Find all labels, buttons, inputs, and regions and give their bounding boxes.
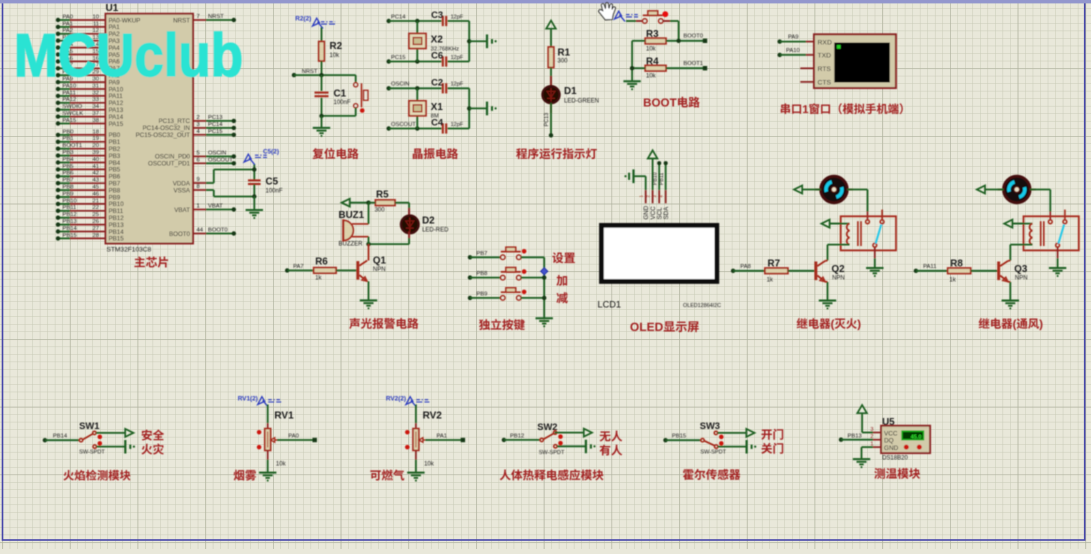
pin PB5 (41) [56,164,121,174]
transistor Q2 NPN [814,261,845,300]
pin PB9 (46) [56,191,121,201]
power arrow fan 继电器(通风) [977,186,1004,194]
sideways ground crystal [469,34,497,48]
svg-text:27: 27 [93,226,99,232]
switch SW2 SW-SPDT PIR sensor [502,421,565,456]
mouse hand cursor [599,3,616,20]
svg-text:PA11: PA11 [63,90,76,96]
cursor label C5(2) [244,149,279,165]
pin RTS stub [800,67,814,69]
relay coil 继电器(灭火) [829,221,861,246]
wiper wire net PA1 [425,434,465,443]
svg-text:PC14: PC14 [391,14,406,20]
resistor R5 300 [369,189,410,213]
resistor R3 10k [645,29,666,52]
net PC14 wire top [387,14,442,23]
caption 测温模块 [874,468,920,479]
svg-text:OSCIN: OSCIN [208,150,226,156]
svg-text:PB7: PB7 [63,178,74,184]
svg-text:1k: 1k [949,277,956,283]
pin PA6 (16) [56,56,120,66]
net OSCIN wire top [387,82,442,91]
pin PA10 (31) [56,83,124,93]
net label PC13 rotated / wire [544,103,553,138]
wire SW1 to power arrow 安全 [96,429,133,437]
relay contacts 继电器(灭火) [866,210,884,248]
svg-text:PA11: PA11 [923,264,936,270]
pin PA7 (17) [56,63,120,73]
transistor Q1 NPN [356,244,386,300]
svg-text:PB3: PB3 [63,150,74,156]
BOOT push button [626,11,679,41]
pin BOOT0 (44) net BOOT0 [169,228,236,238]
svg-text:8: 8 [197,184,200,190]
svg-text:PA0: PA0 [288,434,299,440]
U5 green display 45.0 [902,431,923,440]
svg-text:C3: C3 [431,9,443,20]
relay coil 继电器(通风) [1012,221,1044,246]
svg-text:5: 5 [197,150,200,156]
svg-text:PB9: PB9 [63,191,74,197]
pin PB15 (28) [56,233,124,243]
wire C1 bottom to button bottom [319,114,355,118]
svg-text:PB15: PB15 [109,236,125,243]
svg-text:DS18B20: DS18B20 [882,456,908,462]
caption 串口1窗口（模拟手机端） [781,103,903,114]
svg-text:10k: 10k [424,461,435,467]
caption 开门/关门 [761,429,783,454]
wire VCC rail to buzzer and transistor [368,203,370,244]
crystal X1 8M [409,88,443,128]
svg-text:20: 20 [93,143,99,149]
svg-text:PB8: PB8 [63,185,74,191]
pin PB11 (22) [56,205,124,215]
caption 安全/火灾 [141,430,164,455]
svg-text:LED-RED: LED-RED [422,227,449,233]
caption 程序运行指示灯 [516,148,597,159]
wire PA10 to TXD [778,48,815,57]
wire PB13 to DQ [839,434,873,442]
svg-text:40: 40 [93,157,99,163]
svg-text:SW1: SW1 [79,420,99,431]
led D1 LED-GREEN [543,76,600,113]
oled sideways ground [624,169,645,190]
power arrow U5 [857,405,873,433]
svg-text:34: 34 [93,104,100,110]
caption 主芯片 [134,256,168,267]
caption BOOT电路 [644,97,700,108]
cursor pencil near BOOT button [615,11,639,21]
svg-text:PC14: PC14 [208,122,223,128]
svg-text:PB13: PB13 [63,219,77,225]
svg-text:VBAT: VBAT [174,207,190,214]
relay 继电器(通风) box [1024,216,1079,250]
svg-text:LCD1: LCD1 [598,299,622,309]
wire VDDA to C5 [206,170,254,184]
svg-text:R6: R6 [315,257,328,268]
wire fan to relay 继电器(灭火) [847,190,867,221]
svg-text:NPN: NPN [1015,276,1028,282]
pin VSSA (8) [173,184,206,194]
push button PB7 [468,247,544,259]
caption 可燃气 [370,470,404,481]
svg-text:R7: R7 [768,259,781,270]
capacitor C2 12pF [431,76,469,93]
wire GND pin to ground [853,447,873,468]
mcu U1 body [106,14,194,244]
led D2 LED-RED [401,203,449,234]
probe dots RV1 [257,430,262,449]
potentiometer RV1 10k [265,405,294,468]
svg-text:39: 39 [93,150,99,156]
wire R3 to BOOT0 terminal [666,34,707,43]
svg-text:NRST: NRST [208,14,224,20]
ground Q2 emitter [819,301,836,310]
terminal black screen [834,43,890,83]
svg-text:Q1: Q1 [373,256,387,267]
svg-text:PC13: PC13 [208,115,223,121]
virtual terminal box [814,34,896,88]
svg-text:R4: R4 [646,56,659,67]
wire SW1 to flag 火灾 [97,440,135,454]
power arrow alarm [342,199,371,207]
svg-text:R2: R2 [330,41,343,52]
pin PC13_RTC (2) net PC13 [158,115,236,125]
power arrow coil 继电器(通风) [1004,220,1023,228]
temp module U5 box [881,417,930,453]
svg-text:BUZZER: BUZZER [339,241,364,247]
svg-text:NRST: NRST [302,69,318,75]
fan/motor of 继电器(通风) [998,176,1036,203]
ground buttons [536,318,553,327]
svg-text:RV2: RV2 [423,411,443,422]
buttons right rail [542,257,546,317]
svg-text:PB9: PB9 [476,292,487,298]
ground below C5 [246,210,263,219]
relay 继电器(灭火) box [841,216,896,250]
wire PA9 to RXD [778,35,815,44]
svg-text:BOOT0: BOOT0 [208,228,228,234]
svg-text:PC15: PC15 [391,55,406,61]
svg-text:MCUclub: MCUclub [14,22,243,89]
pin CTS stub [800,81,814,83]
wiper wire net PA0 [277,434,317,443]
svg-text:28: 28 [93,233,99,239]
svg-text:BOOT0: BOOT0 [683,34,703,40]
caption 继电器(灭火) [797,318,861,330]
svg-text:3: 3 [870,427,873,433]
svg-text:OSCIN: OSCIN [391,82,409,88]
oled SCL wire net PB10 [652,161,661,190]
svg-text:C5: C5 [266,177,279,188]
net PC15 wire bottom [387,55,442,64]
svg-text:NPN: NPN [832,276,845,282]
svg-text:C6: C6 [431,50,443,61]
wire fan to relay 继电器(通风) [1030,190,1050,221]
svg-text:PB12: PB12 [510,433,524,439]
pin PA11 (32) [56,90,123,100]
svg-text:C4: C4 [431,117,444,128]
pin PB13 (26) [56,219,124,229]
pin PA4 (14) [56,42,120,52]
svg-text:45: 45 [93,185,99,191]
svg-text:46: 46 [93,191,99,197]
svg-text:NPN: NPN [373,267,386,273]
pin PB0 (18) [56,129,121,139]
svg-text:DQ: DQ [884,438,894,445]
wire R4 to BOOT1 terminal [666,61,707,70]
svg-text:10: 10 [93,14,99,20]
svg-text:PA12: PA12 [63,97,77,103]
sideways ground crystal [469,102,497,116]
svg-text:RV1(2): RV1(2) [238,395,258,402]
pin PA0 (10) [56,14,141,24]
U5 red indicator dots [904,445,922,450]
svg-text:21: 21 [93,198,99,204]
svg-text:CTS: CTS [818,80,832,87]
pin PA9 (30) [56,77,120,87]
pin PA2 (12) [56,28,120,38]
svg-text:PA10: PA10 [786,48,800,54]
svg-text:PA15: PA15 [109,121,124,128]
net OSCOUT wire bottom [387,122,442,131]
svg-text:D1: D1 [564,86,577,97]
capacitor C3 12pF [431,9,469,26]
left rail R3/R4 and ground [623,41,645,90]
svg-text:37: 37 [93,111,99,117]
svg-text:PA7: PA7 [293,264,304,270]
pin PB12 (25) [56,212,124,222]
svg-text:10k: 10k [276,461,287,467]
capacitor C6 12pF [431,50,469,67]
svg-text:100nF: 100nF [266,189,283,195]
wire SW2 to power arrow 无人 [555,429,592,437]
svg-text:PA9: PA9 [788,35,799,41]
fan/motor of 继电器(灭火) [815,176,853,203]
capacitor C4 12pF [431,117,469,134]
svg-text:U5: U5 [882,417,895,428]
svg-text:PB11: PB11 [63,205,77,211]
svg-text:PB14: PB14 [63,226,78,232]
relay contacts 继电器(通风) [1048,210,1066,248]
pin PB7 (43) [56,178,121,188]
crystal right rail wire [467,88,471,128]
svg-text:PB15: PB15 [672,434,686,440]
pot bottom ground RV2 [407,450,424,481]
svg-text:300: 300 [375,208,386,214]
caption 人体热释电感应模块 [500,469,604,480]
svg-text:RTS: RTS [818,66,832,73]
capacitor C1 100nF [315,75,351,116]
resistor R6 1k [285,257,356,282]
ground Q3 emitter [1002,301,1019,310]
relay common to ground 继电器(通风) [1049,247,1066,277]
caption OLED显示屏 [630,321,698,332]
wire SW3 to power arrow 开门 [717,429,754,437]
svg-text:OLED12864I2C: OLED12864I2C [683,303,721,309]
svg-text:RXD: RXD [818,39,832,46]
svg-text:PB4: PB4 [63,157,75,163]
cursor label RV1(2) [238,395,282,407]
svg-text:SW-SPDT: SW-SPDT [700,449,726,455]
svg-text:33: 33 [93,97,99,103]
svg-text:22: 22 [93,205,99,211]
svg-text:PB7: PB7 [476,251,487,257]
svg-text:SWCLK: SWCLK [63,111,84,117]
mcu U1 value STM32F103C8 [107,247,152,254]
wire SW3 to flag 关门 [718,440,757,454]
reset push button [354,75,368,116]
svg-text:BOOT1: BOOT1 [63,143,83,149]
pin PB14 (27) [56,226,124,236]
oled power arrow VCC [648,150,658,190]
svg-text:PB8: PB8 [476,271,487,277]
svg-text:12pF: 12pF [451,55,464,61]
wire coil to Q3 collector [1010,245,1032,261]
svg-text:7: 7 [197,14,200,20]
buzzer BUZ1 [339,210,369,247]
caption 烟雾 [234,470,257,481]
capacitor C5 [248,164,283,209]
svg-text:SWDIO: SWDIO [63,104,83,110]
svg-text:D2: D2 [422,215,435,226]
svg-text:VDDA: VDDA [173,180,191,187]
caption 复位电路 [313,148,359,159]
svg-text:43: 43 [93,178,99,184]
pin PA8 (29) [56,70,120,80]
cursor label RV2(2) [386,395,430,407]
pin PB3 (39) [56,150,121,160]
top window band [0,0,1091,3]
resistor R4 10k [645,56,666,79]
svg-text:9: 9 [197,177,200,183]
pin SWDIO (34) [56,104,124,114]
svg-text:PB10: PB10 [652,172,658,185]
wire VSSA to C5 [206,190,254,197]
svg-text:PB1: PB1 [63,136,74,142]
svg-text:R3: R3 [646,29,659,40]
caption 晶振电路 [413,148,458,159]
probe dots RV2 [405,430,410,449]
oled display LCD1 OLED12864I2C [598,223,722,309]
pin PB8 (45) [56,185,121,195]
svg-text:41: 41 [93,164,99,170]
power arrow coil 继电器(灭火) [821,220,840,228]
caption 继电器(通风) [979,318,1043,330]
svg-text:BOOT0: BOOT0 [169,231,191,238]
svg-text:SW-SPDT: SW-SPDT [79,449,105,455]
svg-text:R1: R1 [558,48,571,59]
svg-text:R2(2): R2(2) [295,16,311,23]
caption 设置 [552,252,575,263]
potentiometer RV2 10k [413,405,442,468]
svg-text:BOOT1: BOOT1 [683,61,703,67]
svg-text:6: 6 [197,157,200,163]
svg-text:PC15-OSC32_OUT: PC15-OSC32_OUT [136,132,191,139]
caption 声光报警电路 [349,318,418,329]
svg-text:Q2: Q2 [832,264,846,275]
svg-text:PA8: PA8 [740,264,751,270]
svg-text:OSCOUT: OSCOUT [208,157,233,163]
svg-text:RV2(2): RV2(2) [386,395,406,402]
svg-text:PB5: PB5 [63,164,74,170]
relay common to ground 继电器(灭火) [866,247,883,277]
pin PB10 (21) [56,198,124,208]
svg-text:38: 38 [93,118,99,124]
svg-text:42: 42 [93,171,99,177]
svg-text:18: 18 [93,129,99,135]
svg-text:U1: U1 [106,3,119,14]
pin BOOT1 (20) [56,143,121,153]
pin PA12 (33) [56,97,124,107]
svg-text:PB6: PB6 [63,171,74,177]
caption 减 [556,292,567,303]
push button PB8 [468,268,544,280]
wire D2 to junction [366,232,409,247]
cursor label R2(2) [295,16,335,29]
caption 独立按键 [479,319,525,330]
resistor R7 1k net PA8 [731,259,815,284]
U5 value DS18B20 [882,456,908,462]
svg-text:12pF: 12pF [451,82,464,88]
svg-text:OSCOUT: OSCOUT [391,122,416,128]
svg-text:PB11: PB11 [659,173,665,185]
mcu U1 refdes [106,3,119,14]
push button PB9 [468,288,544,300]
svg-text:R5: R5 [376,189,389,200]
ground reset circuit [313,116,330,137]
svg-text:25: 25 [93,212,99,218]
oled pins 1-4 [639,190,670,219]
pin PC14-OSC32_IN (3) net PC14 [143,122,236,132]
pin PB6 (42) [56,171,121,181]
caption 无人/有人 [600,431,623,456]
net label NRST / wire [292,69,356,78]
svg-text:45.0: 45.0 [911,434,922,440]
svg-text:26: 26 [93,219,99,225]
svg-text:12pF: 12pF [451,14,464,20]
svg-text:Q3: Q3 [1014,264,1028,275]
wire SW2 to flag 有人 [557,440,596,454]
svg-text:100nF: 100nF [334,100,351,106]
svg-text:R8: R8 [950,259,963,270]
svg-text:3: 3 [197,122,200,128]
svg-text:PB15: PB15 [63,233,77,239]
pin SWCLK (37) [56,111,124,121]
svg-text:OSCOUT_PD1: OSCOUT_PD1 [148,161,191,168]
pin OSCIN_PD0 (5) net OSCIN [155,150,236,160]
svg-text:32: 32 [93,90,99,96]
svg-text:VCC: VCC [884,431,898,438]
svg-text:2: 2 [197,115,200,121]
U5 pin stubs and numbers [870,427,881,448]
svg-text:10k: 10k [646,47,657,53]
svg-text:PC13_RTC: PC13_RTC [158,118,190,125]
svg-text:PC15: PC15 [208,129,223,135]
svg-text:RV1: RV1 [274,411,294,422]
switch SW3 SW-SPDT hall sensor [663,420,726,455]
pin PA1 (11) [56,21,120,31]
pin PC15-OSC32_OUT (4) net PC15 [136,129,236,139]
svg-text:C2: C2 [431,76,443,87]
caption 加 [556,275,567,286]
wire coil to Q2 collector [828,245,850,261]
oled SDA wire net PB11 [659,161,668,190]
svg-text:1k: 1k [315,276,322,282]
svg-text:SW2: SW2 [537,421,557,432]
crystal X2 32.768KHz [409,21,459,62]
pot bottom ground RV1 [259,450,276,481]
